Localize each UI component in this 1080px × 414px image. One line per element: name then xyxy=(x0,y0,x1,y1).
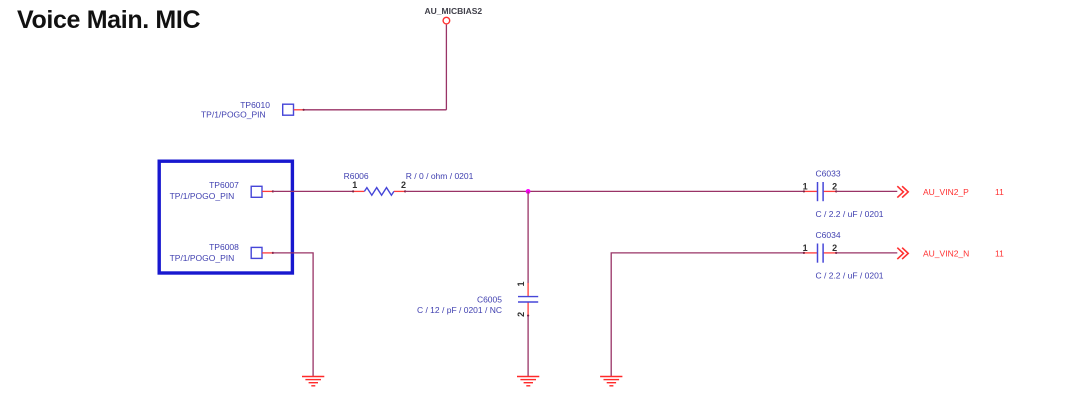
ground under C6005 xyxy=(517,377,539,386)
wire junction down to C6005 xyxy=(527,191,529,283)
svg-text:2: 2 xyxy=(832,181,837,191)
svg-text:Voice Main. MIC: Voice Main. MIC xyxy=(17,6,200,34)
svg-text:TP/1/POGO_PIN: TP/1/POGO_PIN xyxy=(170,191,235,201)
svg-text:AU_VIN2_N: AU_VIN2_N xyxy=(923,249,969,259)
svg-text:11: 11 xyxy=(995,187,1004,197)
svg-text:AU_MICBIAS2: AU_MICBIAS2 xyxy=(425,6,483,16)
svg-text:C / 2.2 / uF / 0201: C / 2.2 / uF / 0201 xyxy=(816,270,884,280)
svg-text:1: 1 xyxy=(352,180,357,190)
wire C6005 to ground xyxy=(527,316,529,376)
wire C6034 to off-page xyxy=(836,252,897,254)
wire R6006 to junction to C6033 xyxy=(405,190,804,192)
svg-text:2: 2 xyxy=(832,243,837,253)
svg-text:2: 2 xyxy=(516,312,526,317)
ground under TP6008 xyxy=(302,377,324,386)
svg-text:TP/1/POGO_PIN: TP/1/POGO_PIN xyxy=(201,110,266,120)
connector box outline xyxy=(159,161,292,273)
capacitor C6033 xyxy=(803,168,884,219)
svg-text:TP6007: TP6007 xyxy=(209,180,239,190)
svg-text:1: 1 xyxy=(803,181,808,191)
svg-text:11: 11 xyxy=(995,249,1004,259)
off-page connector AU_VIN2_N xyxy=(897,248,1004,259)
wire TP6007 to R6006 xyxy=(273,190,353,192)
off-page connector AU_VIN2_P xyxy=(897,186,1004,197)
ground under C6034 net xyxy=(600,377,622,386)
svg-text:C6033: C6033 xyxy=(816,168,841,178)
testpoint TP6007 xyxy=(170,180,274,201)
svg-text:C / 12 / pF / 0201 / NC: C / 12 / pF / 0201 / NC xyxy=(417,305,502,315)
svg-text:TP6010: TP6010 xyxy=(240,100,270,110)
svg-text:1: 1 xyxy=(516,281,526,286)
capacitor C6005 xyxy=(417,281,538,316)
svg-text:TP6008: TP6008 xyxy=(209,242,239,252)
wire C6034 net: left corner down to ground xyxy=(611,253,804,376)
svg-text:2: 2 xyxy=(401,180,406,190)
capacitor C6034 xyxy=(803,230,884,280)
svg-text:C6005: C6005 xyxy=(477,295,502,305)
wire AU_MICBIAS2 horizontal to TP6010 xyxy=(304,109,447,111)
power symbol AU_MICBIAS2 xyxy=(425,6,483,24)
svg-text:R / 0 / ohm / 0201: R / 0 / ohm / 0201 xyxy=(406,171,474,181)
testpoint TP6010 xyxy=(201,100,305,120)
testpoint TP6008 xyxy=(170,242,274,263)
svg-text:C / 2.2 / uF / 0201: C / 2.2 / uF / 0201 xyxy=(816,209,884,219)
wire TP6008 to ground corner xyxy=(273,253,313,376)
wire C6033 to off-page xyxy=(836,190,897,192)
resistor R6006 xyxy=(344,171,474,195)
svg-text:TP/1/POGO_PIN: TP/1/POGO_PIN xyxy=(170,253,235,263)
svg-text:1: 1 xyxy=(803,243,808,253)
svg-text:C6034: C6034 xyxy=(816,230,841,240)
junction node xyxy=(526,189,531,194)
wire AU_MICBIAS2 vertical xyxy=(445,25,447,110)
svg-text:AU_VIN2_P: AU_VIN2_P xyxy=(923,187,969,197)
